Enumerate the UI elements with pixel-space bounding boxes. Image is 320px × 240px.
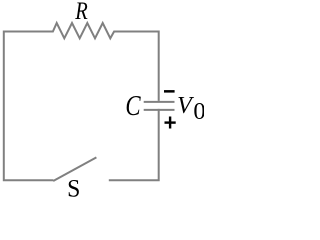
svg-text:C: C — [125, 89, 141, 121]
svg-text:R: R — [74, 0, 87, 25]
svg-text:S: S — [67, 175, 80, 202]
svg-text:0: 0 — [193, 98, 204, 125]
svg-text:V: V — [177, 93, 194, 119]
